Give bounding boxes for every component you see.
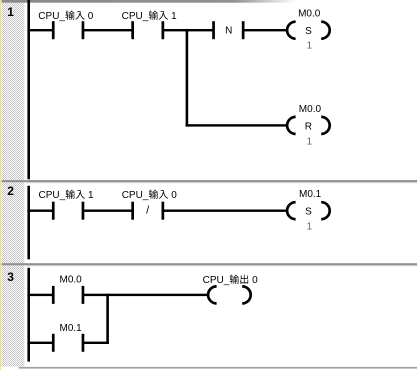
wire between contacts network 2 <box>83 210 133 212</box>
wire rail to contact M0.1 <box>27 342 53 344</box>
svg-text:1: 1 <box>7 5 14 19</box>
svg-text:S: S <box>305 26 312 37</box>
wire contact M0.1 to junction <box>83 342 109 344</box>
bottom pane border <box>19 367 417 369</box>
contact M0.0 (NO) <box>52 286 55 304</box>
wire rail to contact M0.0 <box>27 294 53 296</box>
svg-text:1: 1 <box>88 190 94 201</box>
contact N (negative edge) <box>212 21 215 39</box>
contact CPU_输入1 (NO) <box>52 202 55 220</box>
network number gutter (dithered) <box>2 3 25 367</box>
svg-text:M0.0: M0.0 <box>60 275 83 286</box>
svg-text:CPU_: CPU_ <box>38 11 65 22</box>
svg-text:2: 2 <box>7 184 14 198</box>
svg-text:1: 1 <box>171 11 177 22</box>
coil CPU_输出0 <box>208 286 217 303</box>
svg-text:0: 0 <box>88 11 94 22</box>
coil M0.1 (S) <box>287 202 296 219</box>
svg-text:S: S <box>305 206 312 217</box>
parallel branch junction vertical <box>106 294 109 344</box>
branch wire to R coil <box>186 124 288 126</box>
wire contact M0.0 to coil <box>83 294 208 296</box>
left power rail network 2 <box>27 186 30 259</box>
branch vertical wire <box>186 29 189 127</box>
svg-text:1: 1 <box>307 222 313 233</box>
contact CPU_输入0 (NO) <box>52 21 55 39</box>
svg-text:1: 1 <box>307 41 313 52</box>
wire rail to contact CPU_输入1 <box>27 210 53 212</box>
wire to N contact through branch node <box>163 29 214 31</box>
coil M0.0 (R) <box>287 117 295 134</box>
svg-text:0: 0 <box>171 190 177 201</box>
svg-text:M0.0: M0.0 <box>298 9 321 20</box>
wire N contact to S coil <box>243 29 287 31</box>
network separator 1 <box>2 180 417 182</box>
svg-text:CPU_: CPU_ <box>39 190 66 201</box>
left power rail network 3 <box>27 268 30 362</box>
network separator 2 <box>2 263 417 265</box>
svg-text:CPU_: CPU_ <box>122 190 149 201</box>
svg-text:M0.1: M0.1 <box>60 323 83 334</box>
contact M0.1 (NO) <box>52 334 55 352</box>
svg-text:N: N <box>225 26 232 37</box>
wire rail to contact CPU_输入0 <box>27 29 53 31</box>
svg-text:0: 0 <box>252 275 258 286</box>
svg-text:CPU_: CPU_ <box>122 11 149 22</box>
svg-text:M0.0: M0.0 <box>299 104 322 115</box>
svg-text:M0.1: M0.1 <box>299 189 322 200</box>
wire between contacts <box>83 29 133 31</box>
svg-text:CPU_: CPU_ <box>203 275 230 286</box>
coil M0.0 (S) <box>287 22 296 39</box>
top separator bar <box>2 0 300 3</box>
left window edge strip <box>0 0 1 370</box>
svg-text:1: 1 <box>307 136 313 147</box>
svg-text:R: R <box>305 121 312 132</box>
contact CPU_输入0 (NC) <box>131 202 134 220</box>
svg-text:3: 3 <box>7 270 14 284</box>
contact CPU_输入1 (NO) <box>131 21 134 39</box>
wire to S coil network 2 <box>163 210 288 212</box>
left power rail network 1 <box>27 0 30 179</box>
